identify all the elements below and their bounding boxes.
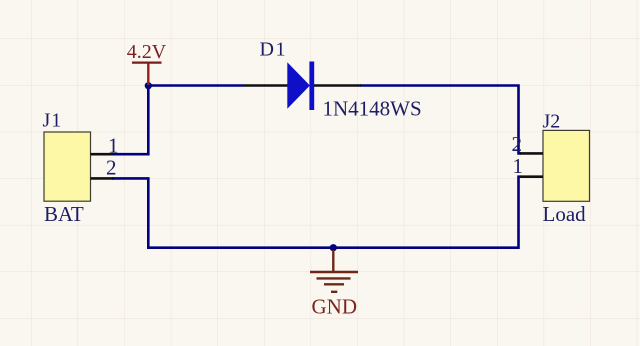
svg-text:2: 2 (106, 155, 117, 179)
J2 pin 1 (520, 175, 543, 178)
svg-text:J2: J2 (543, 111, 561, 133)
svg-text:1: 1 (513, 154, 524, 178)
value Load (543, 202, 587, 226)
pin number 2 (J1) (106, 155, 117, 179)
wire: J1 pin 2 right, down, along bottom, up to J2 pin 1 (112, 177, 521, 248)
junction node: top (power tap) (145, 82, 152, 89)
svg-text:1N4148WS: 1N4148WS (323, 97, 422, 121)
svg-text:GND: GND (312, 294, 358, 318)
connector J2 body (543, 130, 590, 201)
wire: diode cathode to top-right corner then down to J2 pin 2 (360, 86, 521, 154)
svg-text:Load: Load (543, 202, 587, 226)
pin number 2 (J2) (512, 132, 523, 156)
J1 pin 1 (91, 153, 115, 156)
net label GND (312, 294, 358, 318)
connector J1 body (44, 132, 91, 201)
svg-text:2: 2 (512, 132, 523, 156)
wire: diode anode to junction, down to J1 pin 1 (112, 86, 244, 155)
J1 pin 2 (91, 177, 115, 180)
svg-text:1: 1 (108, 133, 119, 157)
designator J1 (43, 110, 63, 132)
svg-text:BAT: BAT (44, 202, 84, 226)
svg-text:J1: J1 (43, 110, 63, 132)
svg-text:4.2V: 4.2V (127, 41, 167, 63)
designator D1 (260, 39, 287, 61)
pin number 1 (J2) (513, 154, 524, 178)
value label 1N4148WS (323, 97, 422, 121)
ground symbol GND (310, 250, 358, 292)
diode D1 (244, 62, 361, 111)
designator J2 (543, 111, 561, 133)
junction node: ground tap (330, 244, 337, 251)
svg-text:D1: D1 (260, 39, 287, 61)
power symbol 4.2V (127, 41, 167, 85)
J2 pin 2 (520, 152, 543, 155)
value BAT (44, 202, 84, 226)
pin number 1 (J1) (108, 133, 119, 157)
